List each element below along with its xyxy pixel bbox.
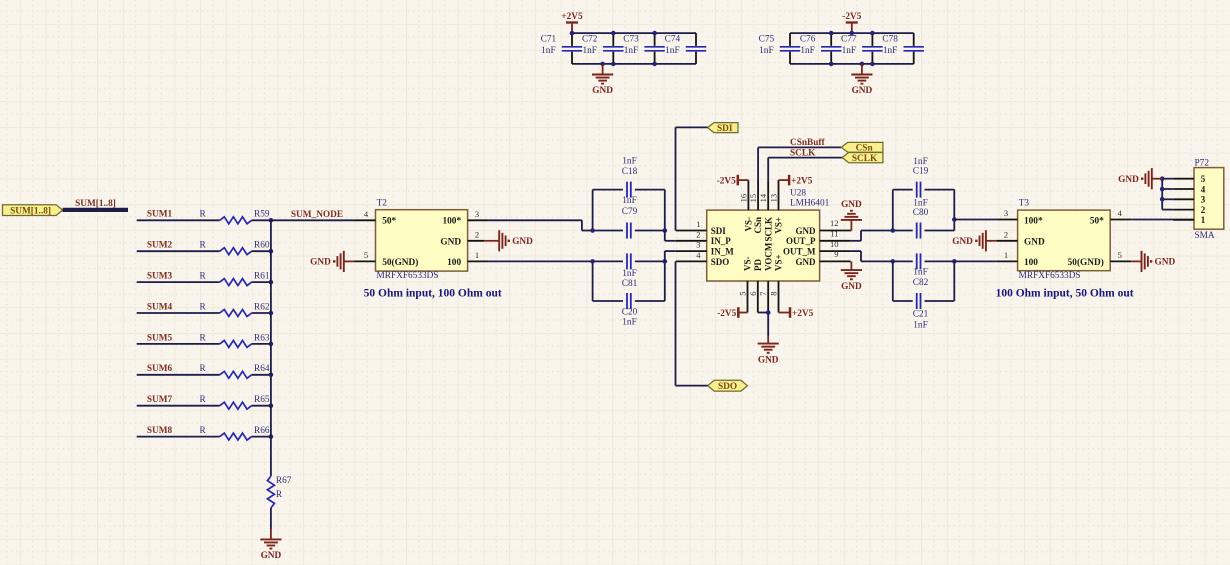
wire U28 pin14 to SCLK port	[768, 158, 842, 181]
wire R67 to ground	[270, 508, 272, 529]
net label SUM8	[147, 426, 173, 436]
svg-text:R: R	[200, 241, 207, 251]
svg-text:C72: C72	[582, 34, 598, 44]
svg-text:+2V5: +2V5	[561, 12, 583, 22]
svg-text:C74: C74	[665, 34, 681, 44]
svg-text:GND: GND	[796, 257, 817, 267]
capacitor C71 1nF	[541, 33, 583, 64]
power +2V5 top-left bank	[561, 12, 583, 33]
wire SUM6	[137, 374, 271, 376]
svg-text:T3: T3	[1019, 198, 1030, 208]
svg-text:9: 9	[834, 249, 838, 259]
svg-text:5: 5	[364, 250, 368, 260]
svg-text:R66: R66	[254, 426, 270, 436]
svg-text:CSn: CSn	[753, 217, 763, 234]
wire C19 loop right	[953, 190, 955, 220]
svg-text:1nF: 1nF	[800, 46, 814, 56]
resistor R65	[200, 395, 270, 409]
pin 5 of T2	[355, 250, 376, 261]
svg-text:T2: T2	[377, 198, 388, 208]
resistor R61	[200, 272, 270, 286]
pin name CSn (U28 top)	[753, 217, 763, 234]
pin name GND (U28 pin12)	[796, 226, 817, 236]
svg-text:16: 16	[738, 194, 748, 203]
pin name OUT_P (U28 pin11)	[786, 236, 816, 246]
svg-text:GND: GND	[1118, 175, 1139, 185]
svg-text:1nF: 1nF	[759, 46, 773, 56]
svg-text:GND: GND	[796, 226, 817, 236]
svg-text:VOCM: VOCM	[763, 242, 773, 271]
svg-text:5: 5	[1201, 174, 1206, 184]
svg-text:11: 11	[830, 229, 838, 239]
svg-text:R: R	[200, 395, 207, 405]
capacitor C78 1nF	[882, 33, 924, 64]
junction SUM2 on SUM_NODE rail	[269, 249, 274, 254]
capacitor C74 1nF	[665, 33, 707, 64]
svg-text:PD: PD	[753, 259, 763, 271]
pin 6 of U28	[748, 281, 758, 313]
junction SUM7 on SUM_NODE rail	[269, 403, 274, 408]
svg-text:GND: GND	[310, 258, 331, 268]
svg-text:C78: C78	[882, 34, 898, 44]
capacitor C21 1nF	[893, 293, 955, 330]
svg-text:VS-: VS-	[744, 217, 754, 232]
svg-text:SDO: SDO	[718, 382, 737, 392]
svg-text:R60: R60	[254, 241, 270, 251]
svg-text:-2V5: -2V5	[842, 12, 861, 22]
net label SUM1	[147, 210, 173, 220]
svg-text:MRFXF6533DS: MRFXF6533DS	[377, 271, 439, 281]
svg-text:R: R	[200, 364, 207, 374]
svg-text:2: 2	[696, 229, 700, 239]
wire C80 node to T3 pin 3	[954, 219, 996, 221]
svg-text:GND: GND	[261, 551, 282, 561]
wire bottom rail of C75-C78 bank	[790, 63, 914, 65]
svg-text:100: 100	[447, 258, 461, 268]
ground GND above U28 pin 12	[841, 200, 862, 231]
svg-text:4: 4	[1118, 208, 1123, 218]
wire C18 loop left	[592, 190, 594, 231]
net label SUM3	[147, 272, 173, 282]
svg-text:1nF: 1nF	[622, 196, 636, 206]
svg-text:SUM[1..8]: SUM[1..8]	[75, 199, 116, 209]
wire C21 loop right	[953, 261, 955, 301]
pin name SCLK (U28 top)	[763, 217, 773, 242]
svg-text:10: 10	[830, 239, 839, 249]
wire C79 node to U28 pin 2	[665, 231, 676, 241]
wire C81 node to U28 pin 3	[665, 251, 676, 261]
wire SUM8	[137, 436, 271, 438]
pin 4 of P72	[1173, 184, 1205, 194]
svg-text:CSnBuff: CSnBuff	[790, 138, 826, 148]
svg-text:100*: 100*	[1024, 217, 1043, 227]
pin 2 of T3	[997, 230, 1018, 241]
wire U28 pin15 to CSn port	[758, 147, 841, 180]
wire T2 pin3 to C79 node	[489, 220, 593, 230]
pin name SDO (U28 pin4)	[711, 257, 730, 267]
svg-text:50*: 50*	[1090, 217, 1104, 227]
pin name IN_P (U28 pin2)	[711, 236, 732, 246]
pin 4 of T3	[1110, 208, 1131, 219]
junction dots C75-C78 bank	[829, 31, 875, 66]
pin name OUT_M (U28 pin10)	[783, 247, 816, 257]
ground GND at T2 pin 2	[484, 230, 533, 251]
pin 2 of U28	[676, 229, 707, 240]
svg-text:GND: GND	[841, 282, 862, 292]
svg-text:C21: C21	[913, 310, 929, 320]
ground GND below U28 pin 9	[841, 261, 862, 291]
pin 13 of U28	[769, 180, 779, 210]
svg-text:5: 5	[1118, 250, 1122, 260]
port SCLK	[842, 153, 883, 164]
svg-text:3: 3	[696, 240, 700, 250]
svg-text:R: R	[200, 426, 207, 436]
svg-text:R59: R59	[254, 210, 270, 220]
resistor R63	[200, 333, 270, 347]
net label SUM4	[147, 302, 173, 312]
capacitor C79 1nF	[593, 196, 665, 239]
wire C20 loop right	[664, 261, 666, 301]
pin name PD (U28 bottom)	[753, 259, 763, 271]
svg-text:P72: P72	[1195, 158, 1210, 168]
wire SUM5	[137, 343, 271, 345]
wire SUM1	[137, 219, 271, 221]
junction SUM8 on SUM_NODE rail	[269, 434, 274, 439]
wire top rail of C71-C74 bank	[572, 32, 696, 34]
capacitor C75 1nF	[759, 33, 801, 64]
svg-text:GND: GND	[512, 237, 533, 247]
svg-text:VS-: VS-	[743, 256, 753, 271]
svg-text:1nF: 1nF	[624, 46, 638, 56]
svg-text:1nF: 1nF	[913, 157, 927, 167]
svg-text:50(GND): 50(GND)	[382, 257, 418, 268]
svg-text:1nF: 1nF	[582, 46, 596, 56]
svg-text:R: R	[200, 302, 207, 312]
junction SUM4 on SUM_NODE rail	[269, 311, 274, 316]
svg-text:1: 1	[1201, 215, 1206, 225]
svg-text:C19: C19	[913, 167, 929, 177]
wire C82 node to T3 pin 1	[954, 260, 996, 262]
svg-text:1nF: 1nF	[913, 198, 927, 208]
net label SCLK	[790, 148, 816, 158]
pin 5 of U28	[738, 281, 748, 313]
svg-text:+2V5: +2V5	[792, 309, 814, 319]
pin 3 of T3	[997, 208, 1018, 219]
wire C18 loop right	[664, 190, 666, 231]
wire SUM2	[137, 250, 271, 252]
svg-text:1nF: 1nF	[842, 46, 856, 56]
svg-text:R61: R61	[254, 272, 270, 282]
value LMH6401	[790, 199, 830, 209]
svg-text:GND: GND	[758, 355, 779, 365]
svg-text:C18: C18	[622, 167, 638, 177]
net label SUM6	[147, 364, 173, 374]
svg-text:2: 2	[1201, 205, 1206, 215]
pin 16 of U28	[738, 180, 748, 210]
port SUM[1..8]	[3, 205, 63, 217]
svg-text:VS+: VS+	[774, 217, 784, 234]
pin 4 of T2	[355, 209, 376, 220]
power +2V5 at U28 pin 8	[779, 307, 814, 319]
junction U28 pin 6/7	[766, 310, 771, 315]
svg-text:1nF: 1nF	[541, 46, 555, 56]
pin name VS- (U28 bottom)	[743, 256, 753, 271]
svg-text:IN_P: IN_P	[711, 236, 732, 246]
svg-text:GND: GND	[1024, 237, 1045, 247]
connector P72 SMA body	[1194, 168, 1224, 230]
resistor R66	[200, 426, 270, 440]
net label SUM_NODE	[291, 210, 343, 220]
svg-text:C71: C71	[541, 34, 557, 44]
pin 5 of T3	[1110, 250, 1131, 261]
pin name VS- (U28 top)	[744, 217, 754, 232]
svg-text:-2V5: -2V5	[717, 309, 736, 319]
power -2V5 at U28 pin 16	[717, 175, 749, 187]
svg-text:4: 4	[1201, 184, 1206, 194]
svg-text:1: 1	[696, 219, 700, 229]
pin 3 of T2	[468, 209, 489, 220]
svg-text:C76: C76	[800, 34, 816, 44]
wire T2 pin1 to C81 node	[489, 260, 593, 262]
designator T2	[377, 198, 388, 208]
wire SUM_NODE to T2 pin 4	[271, 219, 355, 221]
net label SUM[1..8]	[75, 199, 116, 209]
svg-text:100*: 100*	[443, 217, 462, 227]
svg-text:1nF: 1nF	[913, 320, 927, 330]
resistor R64	[200, 364, 270, 378]
svg-text:GND: GND	[1155, 258, 1176, 268]
svg-text:+2V5: +2V5	[791, 176, 813, 186]
port CSn	[841, 142, 883, 153]
svg-text:R67: R67	[276, 476, 292, 486]
pin name IN_M (U28 pin3)	[711, 247, 735, 257]
pin 3 of U28	[676, 240, 707, 251]
svg-text:1nF: 1nF	[665, 46, 679, 56]
svg-text:50 Ohm input, 100 Ohm out: 50 Ohm input, 100 Ohm out	[364, 288, 502, 300]
svg-text:SUM8: SUM8	[147, 426, 173, 436]
svg-text:R: R	[276, 490, 283, 500]
wire SUM_NODE vertical rail	[270, 220, 272, 476]
svg-text:GND: GND	[440, 237, 461, 247]
svg-text:14: 14	[758, 193, 768, 202]
capacitor C20 1nF	[593, 293, 665, 328]
svg-text:GND: GND	[592, 86, 613, 96]
svg-text:R62: R62	[254, 302, 270, 312]
svg-text:7: 7	[758, 292, 768, 296]
svg-text:2: 2	[1004, 230, 1008, 240]
svg-text:C79: C79	[622, 207, 638, 217]
svg-text:SUM5: SUM5	[147, 333, 173, 343]
caption 100 Ohm input, 50 Ohm out	[996, 288, 1134, 300]
svg-text:50(GND): 50(GND)	[1068, 257, 1104, 268]
svg-text:SUM_NODE: SUM_NODE	[291, 210, 343, 220]
bus SUM[1..8]	[63, 208, 128, 212]
svg-text:SMA: SMA	[1195, 231, 1215, 241]
svg-text:R65: R65	[254, 395, 270, 405]
svg-text:12: 12	[830, 218, 839, 228]
capacitor C73 1nF	[623, 33, 665, 64]
svg-text:2: 2	[475, 230, 479, 240]
svg-text:OUT_M: OUT_M	[783, 247, 816, 257]
svg-text:OUT_P: OUT_P	[786, 236, 816, 246]
caption 50 Ohm input, 100 Ohm out	[364, 288, 502, 300]
pin 1 of T2	[468, 250, 489, 261]
pin 11 of U28	[820, 229, 851, 241]
transformer T2 MRFXF6533DS body	[376, 210, 468, 271]
svg-text:C20: C20	[622, 307, 638, 317]
svg-text:R: R	[200, 333, 207, 343]
svg-text:C73: C73	[623, 34, 639, 44]
power -2V5 at U28 pin 5	[717, 307, 747, 319]
svg-text:SUM4: SUM4	[147, 302, 173, 312]
capacitor C18 1nF	[593, 156, 665, 197]
svg-text:3: 3	[1004, 208, 1008, 218]
power -2V5 top-right bank	[842, 12, 861, 33]
pin 7 of U28	[758, 281, 768, 313]
junction dots P72 ground pins	[1160, 176, 1165, 201]
pin 3 of P72	[1173, 195, 1205, 205]
value SMA	[1195, 231, 1215, 241]
svg-text:SUM2: SUM2	[147, 241, 173, 251]
pin 5 of P72	[1173, 174, 1205, 184]
svg-text:R: R	[200, 272, 207, 282]
pin 8 of U28	[769, 281, 779, 313]
pin 10 of U28	[820, 239, 851, 251]
ground GND at P72	[1118, 168, 1162, 189]
svg-text:SUM6: SUM6	[147, 364, 173, 374]
wire U28 pins 6,7 join	[758, 313, 768, 337]
svg-text:SCLK: SCLK	[763, 217, 773, 242]
svg-text:C82: C82	[913, 278, 929, 288]
svg-text:SUM7: SUM7	[147, 395, 173, 405]
pin 1 of T3	[997, 250, 1018, 261]
svg-text:IN_M: IN_M	[711, 247, 735, 257]
resistor R59	[200, 210, 270, 224]
transformer T3 MRFXF6533DS body	[1018, 210, 1111, 271]
pin 15 of U28	[748, 180, 758, 210]
wire C21 loop left	[892, 261, 894, 301]
svg-text:C80: C80	[913, 208, 929, 218]
op-amp U28 LMH6401 body	[707, 210, 820, 281]
junction SUM5 on SUM_NODE rail	[269, 342, 274, 347]
svg-text:C75: C75	[759, 34, 775, 44]
wire top rail of C75-C78 bank	[790, 32, 914, 34]
svg-text:3: 3	[475, 209, 479, 219]
svg-text:SCLK: SCLK	[790, 148, 816, 158]
resistor R67	[267, 476, 291, 508]
junction SUM3 on SUM_NODE rail	[269, 280, 274, 285]
svg-text:GND: GND	[852, 86, 873, 96]
resistor R62	[200, 302, 270, 316]
designator U28	[790, 189, 806, 199]
svg-text:MRFXF6533DS: MRFXF6533DS	[1019, 271, 1081, 281]
ground GND at T2 pin 5	[310, 251, 354, 272]
pin name GND (U28 pin9)	[796, 257, 817, 267]
svg-text:C81: C81	[622, 279, 638, 289]
pin name VS+ (U28 bottom)	[774, 254, 784, 271]
svg-text:1nF: 1nF	[913, 267, 927, 277]
net label CSnBuff	[790, 138, 826, 148]
svg-text:6: 6	[748, 292, 758, 296]
pin 1 of U28	[676, 219, 707, 230]
designator T3	[1019, 198, 1030, 208]
wire P72 ground pins vertical	[1162, 179, 1173, 210]
capacitor C72 1nF	[582, 33, 624, 64]
junction dots left cap network	[590, 228, 667, 264]
wire U28 pin10 to C82 row	[851, 251, 893, 261]
ground GND below C71-C74 bank	[592, 64, 613, 96]
port SDI	[708, 123, 739, 134]
net label SUM2	[147, 241, 173, 251]
wire SUM4	[137, 312, 271, 314]
svg-text:1: 1	[475, 250, 479, 260]
svg-text:SDI: SDI	[711, 226, 727, 236]
capacitor C76 1nF	[800, 33, 842, 64]
svg-text:R63: R63	[254, 333, 270, 343]
pin 14 of U28	[758, 180, 768, 210]
svg-text:LMH6401: LMH6401	[790, 199, 830, 209]
svg-text:SDO: SDO	[711, 257, 730, 267]
svg-text:U28: U28	[790, 189, 806, 199]
junction dots right cap network	[891, 217, 957, 264]
svg-text:1nF: 1nF	[622, 318, 636, 328]
svg-text:15: 15	[748, 194, 758, 203]
svg-text:R: R	[200, 210, 207, 220]
ground GND at T3 pin 5	[1131, 251, 1175, 272]
svg-text:GND: GND	[952, 237, 973, 247]
ground GND below C75-C78 bank	[851, 64, 872, 96]
junction SUM1 on SUM_NODE rail	[269, 218, 274, 223]
wire SDI port to U28 pin 1	[676, 127, 708, 230]
svg-text:8: 8	[769, 292, 779, 296]
junction dots C71-C74 bank	[570, 31, 657, 66]
svg-text:1: 1	[1004, 250, 1008, 260]
svg-text:SDI: SDI	[717, 124, 733, 134]
wire T3 pin 4 to P72 pin 1	[1131, 219, 1194, 221]
svg-text:100 Ohm input, 50 Ohm out: 100 Ohm input, 50 Ohm out	[996, 288, 1134, 300]
svg-text:C77: C77	[841, 34, 857, 44]
svg-text:1nF: 1nF	[883, 46, 897, 56]
wire SDO port to U28 pin 4	[676, 261, 708, 385]
wire U28 pin11 to C80 row	[851, 231, 893, 241]
capacitor C19 1nF	[893, 157, 955, 198]
capacitor C81 1nF	[593, 253, 665, 289]
pin 12 of U28	[820, 218, 851, 230]
capacitor C77 1nF	[841, 33, 883, 64]
port SDO	[708, 380, 748, 392]
value MRFXF6533DS (T2)	[377, 271, 439, 281]
wire C19 loop left	[892, 190, 894, 231]
svg-text:SUM[1..8]: SUM[1..8]	[10, 206, 51, 216]
svg-text:50*: 50*	[382, 217, 396, 227]
svg-text:1nF: 1nF	[622, 156, 636, 166]
svg-text:SUM3: SUM3	[147, 272, 173, 282]
svg-text:R64: R64	[254, 364, 270, 374]
net label SUM7	[147, 395, 173, 405]
pin 9 of U28	[820, 249, 851, 261]
svg-text:1nF: 1nF	[622, 269, 636, 279]
power +2V5 at U28 pin 13	[779, 175, 813, 187]
wire SUM7	[137, 405, 271, 407]
pin 4 of U28	[676, 250, 707, 261]
svg-text:VS+: VS+	[774, 254, 784, 271]
capacitor C82 1nF	[893, 253, 955, 288]
junction SUM6 on SUM_NODE rail	[269, 373, 274, 378]
svg-text:SCLK: SCLK	[852, 154, 878, 164]
pin 2 of T2	[468, 230, 484, 241]
ground GND at T3 pin 2	[952, 230, 996, 251]
pin name VS+ (U28 top)	[774, 217, 784, 234]
